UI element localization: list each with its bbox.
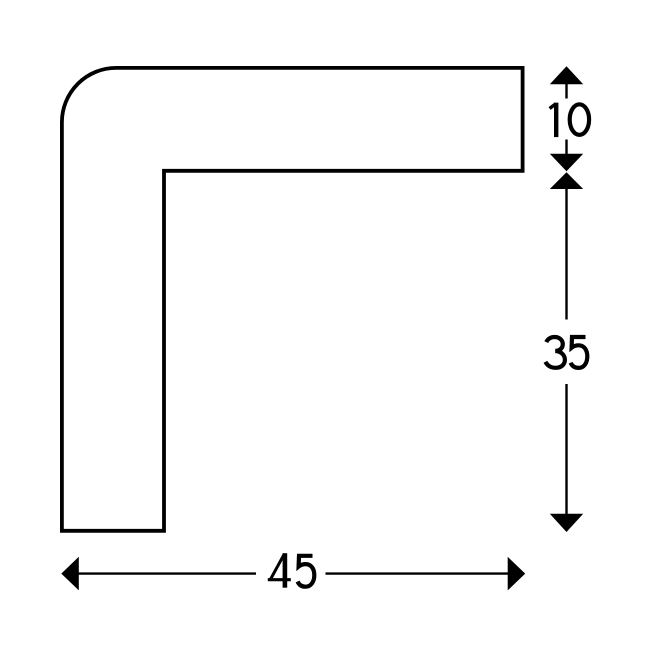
dim 10 line lower: [565, 140, 567, 155]
L-profile outline: [62, 68, 523, 531]
dim 10 line upper: [565, 84, 567, 99]
dim 45 arrow left: [61, 557, 79, 591]
dim 10 arrow up: [550, 66, 583, 84]
dim 10 label digit 0: [570, 104, 589, 135]
dim 45 label digit 4: [268, 553, 291, 588]
dim 35 line lower: [565, 384, 567, 515]
dim 10 arrow down: [550, 154, 583, 172]
dim 35 label digit 3: [545, 337, 565, 368]
dim 35 label digit 5: [571, 337, 588, 368]
dim 35 line upper: [565, 189, 567, 320]
dim 35 arrow down: [550, 514, 583, 532]
dim 45 line right: [326, 572, 509, 574]
dim 10 label digit 1: [550, 103, 557, 137]
dim 45 arrow right: [508, 557, 526, 591]
dim 45 label digit 5: [298, 556, 315, 587]
dim 35 arrow up: [550, 172, 583, 189]
dim 45 line left: [78, 572, 256, 574]
